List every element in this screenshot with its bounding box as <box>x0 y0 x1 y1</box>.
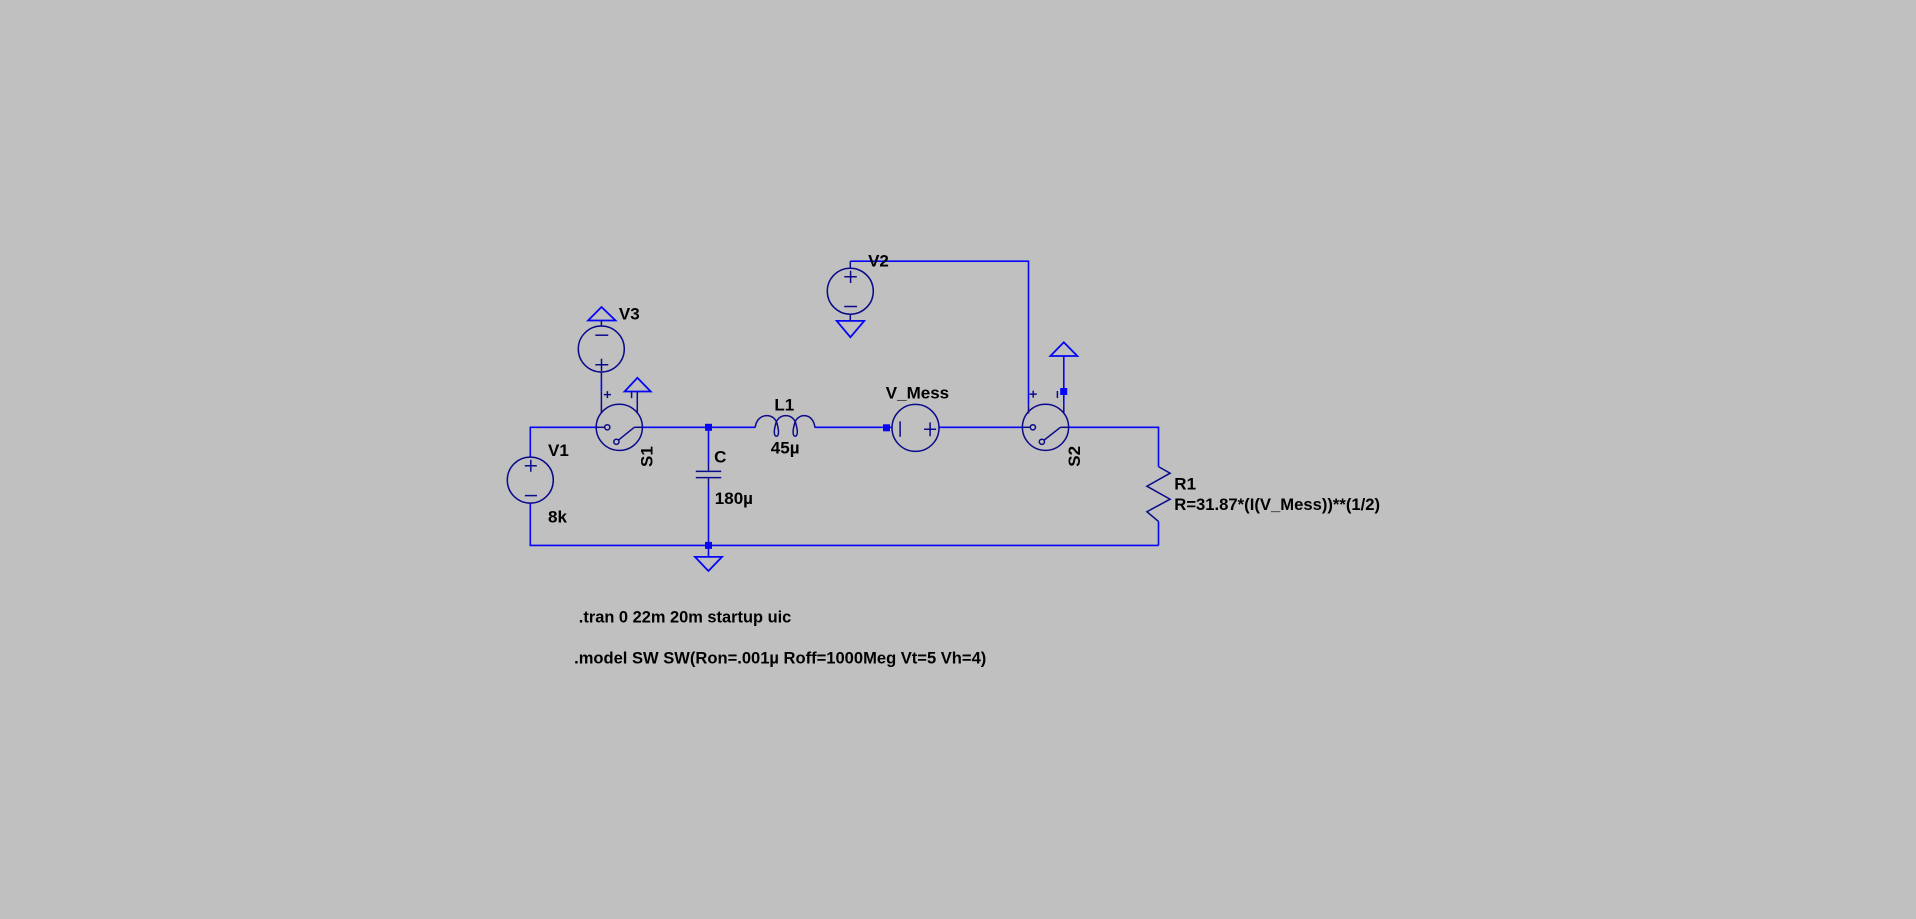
voltage source V1 <box>507 457 553 503</box>
svg-text:180µ: 180µ <box>715 489 753 508</box>
svg-text:V2: V2 <box>868 252 889 271</box>
resistor R1 <box>1147 467 1170 522</box>
svg-text:V1: V1 <box>548 441 569 460</box>
svg-text:V_Mess: V_Mess <box>886 384 949 403</box>
wire top left V1 to S1 <box>530 427 596 457</box>
wire S2 ground stem <box>1063 356 1065 405</box>
ground symbol above S2 (rotated) <box>1050 342 1077 356</box>
switch S1 <box>596 391 642 450</box>
wire bottom rail <box>530 503 1158 546</box>
node junction at capacitor top <box>705 424 712 431</box>
node junction at V_Mess left <box>883 424 890 431</box>
wire V_Mess to S2 <box>939 426 1023 428</box>
svg-text:R1: R1 <box>1174 475 1196 494</box>
capacitor C <box>696 463 721 487</box>
svg-text:S1: S1 <box>638 446 657 467</box>
wire R1 to bottom <box>1158 521 1160 545</box>
voltage source V2 <box>827 261 873 321</box>
svg-text:.model SW SW(Ron=.001µ Roff=10: .model SW SW(Ron=.001µ Roff=1000Meg Vt=5… <box>574 648 986 667</box>
wire S1 to L1 <box>642 426 755 428</box>
wire S2 to R1 corner <box>1068 427 1158 466</box>
svg-text:C: C <box>714 448 726 467</box>
svg-text:8k: 8k <box>548 508 567 527</box>
switch S2 <box>1022 391 1068 451</box>
ground symbol above V3 (rotated) <box>588 307 615 321</box>
wire L1 to V_Mess <box>815 426 892 428</box>
inductor L1 <box>755 416 815 437</box>
svg-text:V3: V3 <box>619 305 640 324</box>
svg-text:.tran 0 22m 20m startup uic: .tran 0 22m 20m startup uic <box>579 607 792 626</box>
wire V2 top to S2 plus pin <box>850 261 1028 405</box>
voltage source V3 <box>578 321 624 380</box>
node junction at S2 minus pin <box>1060 388 1067 395</box>
wire capacitor top <box>708 427 710 462</box>
voltage source V_Mess (current sense) <box>892 404 939 451</box>
wire V3 to S1 plus pin <box>600 379 602 391</box>
svg-text:S2: S2 <box>1065 446 1084 467</box>
wire main ground stem <box>708 545 710 557</box>
ground symbol above S1 (rotated) <box>625 378 651 392</box>
ground symbol below V2 <box>837 321 865 337</box>
node junction at ground <box>705 542 712 549</box>
svg-text:L1: L1 <box>774 396 794 415</box>
svg-text:45µ: 45µ <box>771 439 800 458</box>
ground symbol below bottom rail <box>695 557 722 571</box>
svg-text:R=31.87*(I(V_Mess))**(1/2): R=31.87*(I(V_Mess))**(1/2) <box>1174 495 1380 514</box>
wire capacitor bottom <box>708 487 710 546</box>
